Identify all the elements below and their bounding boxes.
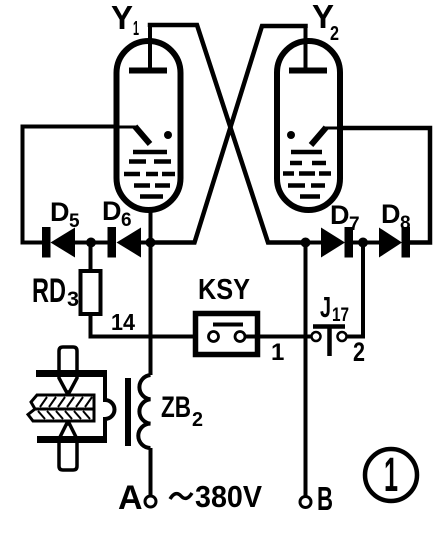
ignitron Y1 envelope [117, 41, 181, 210]
svg-text:380V: 380V [195, 479, 262, 514]
contact J17 [312, 327, 347, 357]
svg-text:1: 1 [133, 18, 139, 40]
svg-text:D: D [102, 196, 122, 226]
terminal A circle [145, 496, 156, 507]
node Y1 cathode junction [146, 238, 156, 248]
welding gun upper arm [36, 370, 107, 377]
svg-text:2: 2 [192, 409, 203, 431]
ignitron Y2 envelope [277, 41, 340, 210]
svg-text:7: 7 [349, 214, 360, 235]
wire Y1 anode to Y2 cathode (cross link) [150, 25, 306, 243]
welding gun workpiece lower [28, 409, 94, 421]
svg-text:D: D [330, 200, 350, 230]
svg-text:6: 6 [121, 210, 132, 231]
label D8 [381, 199, 411, 234]
label D6 [102, 196, 132, 231]
welding gun upper electrode [59, 347, 77, 392]
ignitron Y1 grid dot [164, 131, 172, 139]
label ~380V [170, 479, 262, 514]
label D5 [50, 197, 80, 232]
ignitron Y2 igniter [311, 128, 342, 146]
wire Y2 cathode to terminal B [304, 243, 308, 498]
welding gun workpiece upper [31, 395, 94, 409]
svg-text:Y: Y [111, 0, 133, 36]
svg-text:B: B [317, 480, 333, 517]
diode D6 [108, 227, 142, 258]
wire D6 to Y1 cathode node [140, 241, 195, 245]
label Y2 [312, 0, 339, 45]
wire D7 to D8 [353, 241, 380, 245]
wire Y2 cathode to D7 [306, 241, 323, 245]
ignitron Y1 igniter [115, 127, 150, 145]
svg-text:1: 1 [384, 449, 398, 502]
wire J17 to D7-D8 junction [347, 244, 364, 337]
svg-text:J: J [320, 292, 331, 324]
svg-text:2: 2 [353, 337, 365, 367]
switch KSY contact bar [213, 323, 243, 327]
wire RD3 to KSY [89, 335, 209, 339]
wire coil to terminal A [149, 448, 153, 496]
svg-text:A: A [118, 479, 143, 517]
diode D7 [321, 227, 353, 258]
label D7 [330, 200, 360, 235]
ignitron Y1 anode plate [129, 68, 167, 74]
svg-text:14: 14 [111, 309, 135, 335]
label J17 [320, 292, 349, 326]
svg-text:8: 8 [400, 213, 411, 234]
wire KSY to J17 [245, 335, 312, 339]
svg-text:3: 3 [67, 288, 79, 311]
diode D5 [42, 227, 75, 258]
terminal B circle [300, 497, 311, 508]
welding gun lower arm [37, 436, 107, 443]
node RD3 tap junction [86, 238, 96, 248]
node J17 tap junction [358, 238, 368, 248]
svg-text:2: 2 [330, 23, 339, 45]
welding gun lower electrode [59, 424, 77, 470]
transformer ZB2 primary coil [138, 375, 150, 448]
wire Y2 anode to Y1 cathode (cross link) [151, 26, 306, 243]
svg-text:1: 1 [271, 339, 284, 366]
ignitron Y2 anode plate [289, 68, 327, 74]
ignitron Y2 mercury pool [283, 152, 331, 197]
figure number circled 1 [365, 449, 417, 502]
svg-text:KSY: KSY [198, 274, 250, 306]
svg-text:D: D [50, 197, 70, 227]
wire left igniter loop [23, 127, 117, 243]
ignitron Y2 grid dot [287, 131, 295, 139]
switch KSY right terminal [235, 332, 245, 342]
svg-text:D: D [381, 199, 401, 229]
svg-text:5: 5 [69, 211, 80, 232]
switch KSY left terminal [209, 332, 219, 342]
label ZB2 [161, 391, 203, 431]
label RD3 [32, 272, 79, 311]
wire D5 to D6 [74, 241, 108, 245]
label Y1 [111, 0, 139, 40]
resistor RD3 body [81, 243, 101, 339]
ignitron Y1 mercury pool [124, 152, 175, 197]
svg-text:RD: RD [32, 272, 66, 310]
node Y2 cathode junction [301, 238, 311, 248]
wire Y1 cathode down [149, 208, 153, 375]
svg-text:17: 17 [332, 305, 349, 326]
ignitron Y2 anode lead [304, 26, 308, 70]
svg-text:ZB: ZB [161, 391, 191, 424]
welding gun secondary loop [105, 371, 115, 443]
transformer ZB2 core [125, 378, 131, 446]
diode D8 [379, 227, 410, 258]
wire right igniter loop [341, 128, 430, 243]
ignitron Y1 anode lead [148, 25, 152, 70]
switch KSY box [196, 314, 258, 355]
